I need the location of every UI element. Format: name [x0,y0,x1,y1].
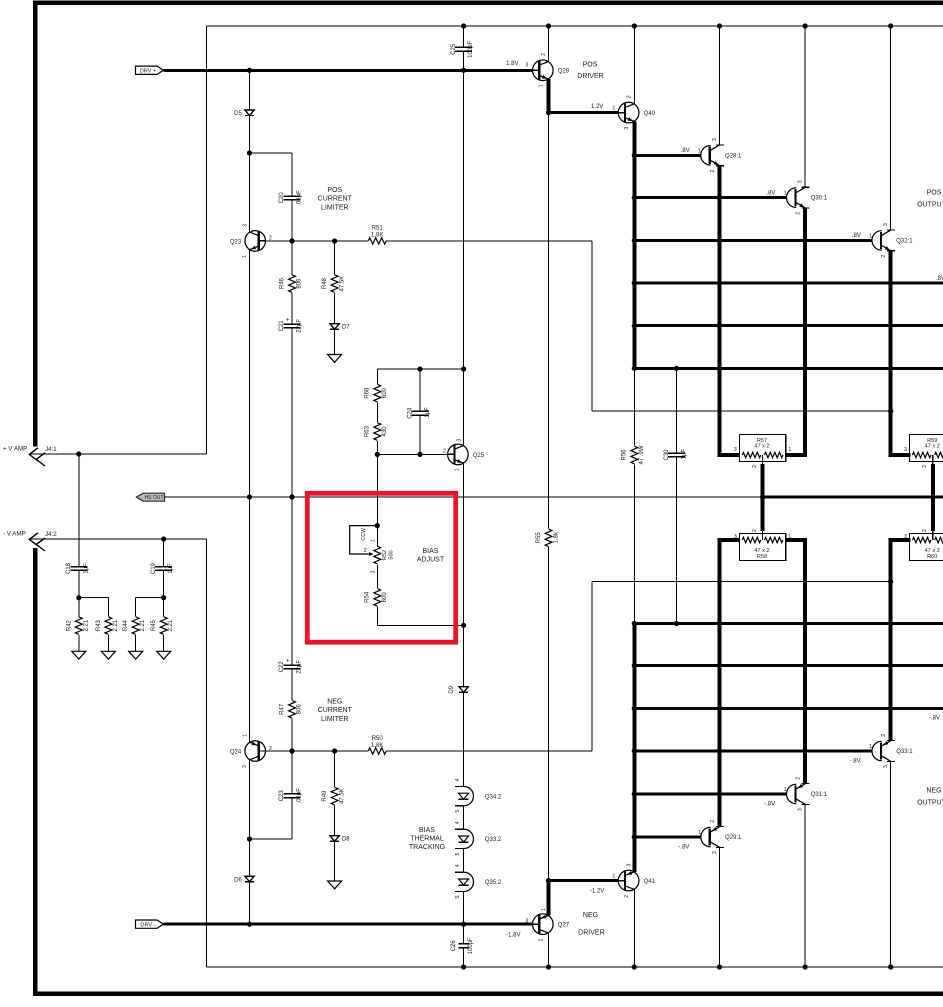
node botrail Q27 [546,964,551,969]
svg-text:3: 3 [525,63,528,69]
svg-text:100pF: 100pF [468,937,474,954]
transistor Q28:1 POS output [681,138,742,172]
wire Q25 collector up [463,70,465,445]
node C23 branch [247,836,252,841]
svg-text:R46: R46 [280,277,286,289]
transistor Q41 [590,863,656,897]
svg-text:Q40: Q40 [644,111,656,117]
svg-text:C20: C20 [279,192,285,204]
svg-text:1: 1 [869,744,872,750]
svg-text:R55: R55 [536,532,542,544]
svg-text:J4:2: J4:2 [45,531,57,538]
svg-text:4: 4 [455,864,461,867]
svg-text:47 x 2: 47 x 2 [925,444,940,450]
transistor Q24 [230,734,272,768]
svg-text:3: 3 [624,127,630,130]
node bus row 197.6 [632,195,637,200]
svg-text:1: 1 [869,233,872,239]
node row6 C30 [674,366,679,371]
svg-text:+: + [286,658,290,665]
node Q28-Q40 [546,110,551,115]
svg-text:BIAS: BIAS [423,548,439,555]
svg-text:R45: R45 [151,619,157,631]
node botrail col2 [803,964,808,969]
wire HS OUT line [165,496,763,498]
svg-text:3: 3 [734,534,737,540]
node botrail C26 [461,964,466,969]
wire NEG row 6 [634,622,943,625]
node bus row 155.3 [632,153,637,158]
node bias bottom [461,623,466,628]
capacitor C24 .1uF [407,369,430,454]
node bus rowN 837 [632,834,637,839]
wire +V top rail [207,25,943,27]
text BIAS THERMAL TRACKING [409,827,445,851]
svg-text:22µF: 22µF [297,319,303,333]
svg-text:2: 2 [752,465,758,468]
node pot top [375,523,380,528]
ground D7 [328,355,342,363]
svg-text:TRACKING: TRACKING [409,844,445,851]
svg-text:.01µF: .01µF [297,190,303,206]
svg-text:1: 1 [698,830,701,836]
svg-text:1: 1 [370,539,376,542]
svg-text:-.8V: -.8V [678,845,689,851]
svg-text:Q32:1: Q32:1 [896,238,913,244]
wire Q41 collector to bottom rail [633,889,635,967]
svg-text:Q23: Q23 [230,239,242,245]
transistor Q33:2 diode-connected [455,821,502,855]
svg-text:THERMAL: THERMAL [410,836,444,843]
resistor R42 2.21 [66,598,89,652]
svg-text:Q30:1: Q30:1 [811,196,828,202]
node HS R59 [930,494,935,499]
svg-text:R56: R56 [622,449,628,461]
svg-text:1µF: 1µF [83,563,89,574]
node C19 R44 [161,595,166,600]
node bus rowN 794 [632,791,637,796]
ground R43 [101,651,115,659]
node bus row 240.4 [632,238,637,243]
wire bias column to pot [376,454,378,525]
text BIAS ADJUST [417,548,445,564]
node DRV+ D5 [247,68,252,73]
svg-text:1: 1 [788,534,791,540]
svg-text:500: 500 [389,550,395,559]
svg-text:R42: R42 [66,619,72,631]
wire Q29:1 emitter to R58 [720,540,740,827]
svg-text:3: 3 [371,570,377,573]
svg-text:2: 2 [710,820,716,823]
wire R60 pin2 to HS rail [931,497,935,531]
svg-text:D7: D7 [342,325,350,331]
resistor R68 600 [365,369,388,402]
node bus rowN 665.5 [632,663,637,668]
node D5 branch [247,150,252,155]
wire Q27 emitter to Q41 [549,881,618,916]
svg-text:1.8K: 1.8K [371,233,383,239]
svg-text:Q41: Q41 [644,879,656,885]
svg-text:.8V: .8V [681,148,690,154]
diode D8 [330,836,350,881]
wire bias bottom [377,624,463,626]
svg-text:3: 3 [883,223,889,226]
transistor Q32:1 POS output [852,223,913,257]
svg-text:1.8k: 1.8k [553,531,559,543]
text NEG OUTPUT [917,787,943,806]
node J4:2 C19 [161,536,166,541]
svg-text:3: 3 [734,447,737,453]
wire HS OUT thick rail [763,495,943,498]
node sense NEG [888,579,893,584]
svg-text:1: 1 [612,874,615,880]
svg-text:OUTPUT: OUTPUT [917,201,943,208]
svg-text:430: 430 [382,426,388,437]
node HS C21 [289,494,294,499]
resistor R58 47x2 [739,534,785,561]
svg-text:2: 2 [881,255,887,258]
svg-text:4: 4 [455,821,461,824]
resistor R56 47 .9W [622,368,645,623]
capacitor C26 100pF [451,924,474,967]
svg-text:R51: R51 [372,226,384,232]
diode D7 [330,324,350,355]
node rail C25 [461,23,466,28]
wire Q32:1 collector feed [890,26,892,230]
resistor R50 1.8K [368,736,386,754]
node rail col3 [888,23,893,28]
svg-text:3: 3 [904,534,907,540]
svg-text:-.8V: -.8V [764,802,775,808]
flag HS OUT [136,493,164,501]
svg-text:R52: R52 [382,550,388,560]
svg-text:806: 806 [297,278,303,289]
svg-text:C24: C24 [407,407,413,419]
capacitor C20 .01uF [279,153,303,241]
svg-text:C23: C23 [279,790,285,802]
svg-text:2: 2 [364,548,367,554]
svg-text:-.8V: -.8V [850,759,861,765]
wire DRV- line [164,923,533,926]
svg-text:+ V AMP: + V AMP [3,446,27,453]
svg-text:Q29:1: Q29:1 [725,835,742,841]
wire Q31:1 emitter to R58 pin1 [786,540,806,784]
text POS OUTPUT [917,189,943,208]
resistor R49 47.5K [322,751,345,836]
transistor Q23 [230,224,272,258]
svg-text:R49: R49 [322,790,328,802]
wire POS row 4 [634,282,943,285]
svg-text:100pF: 100pF [468,40,474,57]
svg-text:POS: POS [927,189,942,196]
svg-text:1: 1 [538,84,544,87]
wire Q41 emitter bus [632,624,636,872]
svg-text:4: 4 [455,778,461,781]
svg-text:47 .9W: 47 .9W [639,445,645,464]
flag DRV- [136,920,164,928]
wire Q23 base row [259,240,592,242]
wire Q33:1 collector feed [890,761,892,967]
svg-text:HS OUT: HS OUT [145,495,164,501]
wire Q34:2 to Q33:2 [463,806,465,830]
node Q25 base R63 [375,452,380,457]
svg-text:2.21: 2.21 [168,619,174,631]
wire -V bottom rail [207,966,943,968]
wire D5 branch to C20 [250,152,293,154]
resistor R55 1.8k [536,113,559,881]
svg-text:Q33:1: Q33:1 [896,749,913,755]
node rowN6 R56 [632,621,637,626]
wire Q25 emitter down to bias bottom [463,463,465,625]
svg-text:R44: R44 [123,619,129,631]
svg-text:.8V: .8V [852,233,861,239]
svg-text:5: 5 [455,810,461,813]
wire C18 to R42/R43 [79,597,109,599]
node Q27-Q41 [546,878,551,883]
svg-text:1: 1 [242,734,248,737]
transistor Q40 [591,95,656,129]
svg-text:R63: R63 [365,425,371,437]
svg-text:D8: D8 [342,837,350,843]
wire R59 pin2 to HS rail [931,464,935,497]
text NEG CURRENT LIMITER [318,699,353,723]
svg-text:47 x 2: 47 x 2 [754,444,769,450]
wire -V from J4:2 to rail feed [30,539,207,967]
wire NEG row 2 [634,793,787,796]
node HS R57 [760,494,765,499]
node base row R48 [332,238,337,243]
node botrail Q41 [632,964,637,969]
node Q24 base C22 [289,748,294,753]
svg-text:3: 3 [712,138,718,141]
resistor R59 47x2 [910,434,943,461]
svg-text:3: 3 [242,765,248,768]
resistor R51 1.8K [368,226,386,245]
wire NEG row 3 [634,750,872,753]
wire Q40 collector to rail [633,26,635,104]
node DRV- D6 [247,922,252,927]
svg-text:C25: C25 [451,43,457,55]
transistor Q27 NEG driver [506,908,570,942]
svg-text:R48: R48 [322,277,328,289]
wire POS row 5 [634,324,943,327]
svg-text:3: 3 [798,180,804,183]
transistor Q30:1 POS output [766,180,827,214]
svg-text:POS: POS [327,187,342,194]
svg-text:Q28: Q28 [558,69,570,75]
svg-text:3: 3 [798,808,804,811]
wire POS row 6 [634,367,943,370]
svg-text:1: 1 [698,148,701,154]
svg-text:DRV -: DRV - [140,922,155,928]
connector J4:1 + V AMP [3,446,57,466]
svg-text:-1.2V: -1.2V [590,888,604,894]
transistor Q34:2 diode-connected [455,778,502,812]
svg-text:DRIVER: DRIVER [578,929,604,936]
svg-text:1: 1 [788,447,791,453]
svg-text:POS: POS [583,61,598,68]
node DRV- C26 [461,922,466,927]
svg-text:1.8V: 1.8V [506,61,518,67]
capacitor C21 22uF [279,293,303,497]
node R68 line C24 [417,366,422,371]
node C18 R43 [76,595,81,600]
node J4:1 C18 [76,451,81,456]
svg-text:NEG: NEG [583,912,598,919]
resistor R60 47x2 [910,534,943,561]
text POS CURRENT LIMITER [318,187,353,211]
svg-text:3: 3 [904,447,907,453]
node bus rowN 708.5 [632,706,637,711]
svg-text:Q34:2: Q34:2 [485,794,502,800]
svg-text:DRIVER: DRIVER [577,73,603,80]
resistor R57 47x2 [739,434,785,461]
wire Q29:1 collector feed [719,847,721,967]
node rail Q28 [546,23,551,28]
ground R44 [129,651,143,659]
svg-text:+: + [286,317,290,324]
svg-text:BIAS: BIAS [419,827,435,834]
text POS DRIVER [577,61,603,80]
svg-text:-.8V: -.8V [929,716,940,722]
wire Q33:2 to Q35:2 [463,849,465,873]
wire POS row 2 [634,196,787,199]
ground R42 [72,651,86,659]
svg-text:2.21: 2.21 [113,619,119,631]
svg-text:C30: C30 [664,449,670,461]
text NEG DRIVER [578,912,604,936]
svg-text:R47: R47 [280,703,286,715]
svg-text:-1.8V: -1.8V [506,933,520,939]
svg-text:R68: R68 [365,387,371,399]
wire NEG row 5 [634,664,943,667]
node botrail col1 [717,964,722,969]
node bus row 283 [632,280,637,285]
svg-text:2: 2 [922,465,928,468]
svg-text:OUTPUT: OUTPUT [917,799,943,806]
node rail col2 [803,23,808,28]
svg-text:1: 1 [454,468,460,471]
wire Q23 emitter to HS OUT [249,250,251,497]
wire Q31:1 collector feed [804,804,806,967]
diode D6 [234,760,254,924]
svg-text:D5: D5 [234,111,242,117]
svg-text:.8V: .8V [766,190,775,196]
connector J4:2 - V AMP [3,531,57,551]
svg-text:CURRENT: CURRENT [318,707,353,714]
node rail Q40 [632,23,637,28]
wire current-limit sense NEG [592,582,891,752]
wire Q28 collector to rail [548,26,550,62]
capacitor C22 22uF [279,497,303,700]
svg-text:Q24: Q24 [230,749,242,755]
svg-text:R43: R43 [96,619,102,631]
capacitor C18 [66,454,89,598]
ground D8 [328,881,342,889]
svg-text:2.21: 2.21 [83,619,89,631]
svg-text:NEG: NEG [926,787,941,794]
svg-text:.1µF: .1µF [681,449,687,461]
wire Q25 base row [377,453,453,455]
svg-text:C18: C18 [66,562,72,574]
svg-text:2: 2 [624,895,630,898]
svg-text:Q33:2: Q33:2 [485,837,502,843]
svg-text:DRV +: DRV + [140,69,157,75]
wire R57 pin2 to HS rail [761,464,765,497]
diode D9 [449,625,468,786]
red highlight box BIAS ADJUST [307,493,455,642]
svg-text:CURRENT: CURRENT [318,196,353,203]
wire NEG row 4 [634,707,943,710]
node bus rowN 751 [632,748,637,753]
node R68 line Q25col [461,366,466,371]
resistor R48 47.5K [322,241,345,324]
wire Q28:1 emitter to R57 [720,166,740,455]
wire Q33:1 emitter to R60 [891,540,911,741]
wire Q30:1 emitter to R57 pin1 [786,208,806,455]
wire DRV+ line [164,69,533,72]
svg-text:3: 3 [457,439,463,442]
svg-text:LIMITER: LIMITER [321,204,349,211]
resistor R45 2.21 [151,598,174,652]
node rowN6 C30 [674,621,679,626]
svg-text:- V AMP: - V AMP [3,531,26,538]
transistor Q31:1 NEG output [764,777,828,811]
svg-text:Q28:1: Q28:1 [725,153,742,159]
wire Q24 base row [259,750,592,752]
transistor Q35:2 diode-connected [455,864,502,898]
wire Q40 emitter bus [632,121,636,368]
wire R58 pin2 to HS rail [761,497,765,531]
svg-text:2: 2 [710,169,716,172]
svg-text:Q25: Q25 [473,453,485,459]
wire POS row 3 [634,239,872,242]
svg-text:2: 2 [626,95,632,98]
node Q24 base R49 [332,748,337,753]
svg-text:C22: C22 [279,661,285,673]
wire Q32:1 emitter to R59 [891,251,911,455]
node HS Q23 [247,494,252,499]
svg-text:1: 1 [784,787,787,793]
resistor R63 430 [365,402,388,454]
resistor R47 806 [280,701,303,752]
svg-text:47.5K: 47.5K [339,276,345,292]
svg-text:NEG: NEG [327,699,342,706]
svg-text:R50: R50 [372,736,384,742]
wire current-limit sense POS [592,241,891,411]
ground R45 [157,651,171,659]
svg-text:22µF: 22µF [297,660,303,674]
diode D5 [234,70,254,232]
capacitor C23 .01uF [279,751,303,839]
capacitor C19 [151,539,174,598]
svg-text:.8V: .8V [936,276,943,282]
transistor Q29:1 NEG output [678,820,742,854]
svg-text:R54: R54 [365,591,371,603]
wire Q30:1 collector feed [804,26,806,187]
wire +V from J4:1 to rail feed [30,26,207,454]
capacitor C30 .1uF [664,368,687,623]
svg-text:D6: D6 [234,877,242,883]
potentiometer R52 500 wiper loop [350,526,378,556]
wire Q24 collector to HS OUT [249,497,251,742]
svg-text:J4:1: J4:1 [45,446,57,453]
node row6 R56 [632,366,637,371]
svg-text:C21: C21 [279,320,285,332]
resistor R43 2.21 [96,598,119,652]
svg-text:2: 2 [796,212,802,215]
svg-text:5: 5 [455,895,461,898]
